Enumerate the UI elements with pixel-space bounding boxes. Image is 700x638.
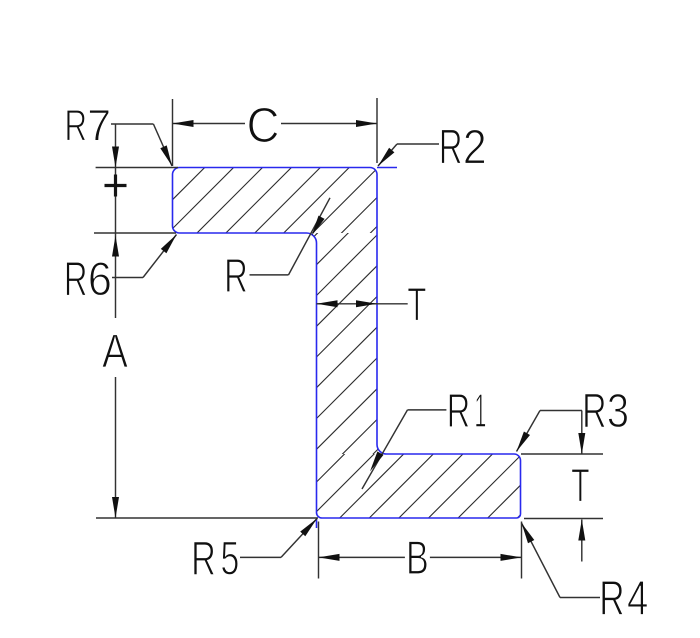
dimension B line bbox=[319, 554, 522, 561]
dimension T right line bottom bbox=[578, 520, 585, 562]
leader R4 bbox=[522, 523, 601, 598]
dimension C extension line right bbox=[376, 98, 378, 163]
leader R1 bbox=[362, 410, 446, 489]
dimension C extension line left bbox=[172, 99, 174, 166]
dimension A / flange thickness line bbox=[115, 124, 117, 518]
flange bottom extension line bbox=[94, 232, 176, 234]
top edge extension line bbox=[96, 167, 178, 169]
dimension B extension line left bbox=[318, 522, 320, 579]
thickness arrow up bbox=[112, 236, 119, 257]
label A bbox=[102, 334, 128, 367]
leader R2 bbox=[378, 144, 439, 166]
label R1 bbox=[449, 394, 485, 427]
leader R bbox=[250, 198, 331, 275]
label T web bbox=[408, 288, 426, 321]
dimension B extension line right bbox=[521, 522, 523, 579]
dimension A arrow down bbox=[112, 497, 119, 518]
bottom edge extension line bbox=[96, 517, 318, 519]
dimension C line bbox=[173, 120, 378, 127]
leader R7 bbox=[111, 124, 172, 166]
label R5 bbox=[194, 542, 238, 575]
label T right bbox=[572, 469, 589, 502]
dimension T web line bbox=[317, 300, 408, 307]
label R7 bbox=[67, 110, 109, 141]
label R2 bbox=[442, 129, 485, 163]
outline overshoot top-right bbox=[377, 167, 397, 169]
label R bbox=[227, 259, 247, 292]
flange top extension line right bbox=[521, 453, 603, 455]
flange bottom extension line right bbox=[524, 518, 603, 520]
leader R3 bbox=[517, 411, 583, 452]
label R4 bbox=[602, 581, 647, 615]
Z-profile outline bbox=[173, 168, 521, 519]
thickness arrow down bbox=[112, 147, 119, 168]
dimension T right line top bbox=[578, 411, 585, 455]
outline overshoot bottom-left bbox=[316, 519, 318, 528]
label R6 bbox=[67, 262, 110, 296]
label C bbox=[249, 107, 278, 142]
label R3 bbox=[585, 394, 627, 428]
label B bbox=[409, 541, 427, 574]
leader R5 bbox=[240, 519, 317, 558]
leader R6 bbox=[112, 235, 177, 278]
plus tick bbox=[105, 175, 127, 197]
